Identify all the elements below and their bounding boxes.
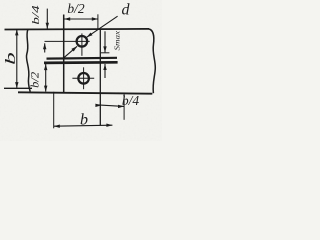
- arrowhead b left bottom: [15, 82, 18, 88]
- node hole 1 centerline vertical: [81, 33, 83, 55]
- dimension b/4 top lower tail: [44, 43, 46, 52]
- dimension b/2 top line: [64, 18, 98, 20]
- arrowhead leader d at circle: [87, 33, 93, 38]
- dimension b bottom line: [54, 125, 113, 126]
- dimension Smax lower segment: [104, 64, 106, 78]
- hole 2 circle: [78, 73, 89, 84]
- arrowhead b/2 left down: [44, 86, 47, 92]
- node hole 2 centerline horizontal: [72, 77, 94, 79]
- arrowhead b/2 top left: [64, 17, 70, 20]
- arrowhead b bottom left: [54, 125, 60, 128]
- extension line b/4 bottom right V12: [123, 94, 125, 120]
- wire bottom edge left plate B1: [4, 87, 32, 89]
- wire lower seam line H6: [44, 61, 118, 64]
- leader line d lower: [64, 46, 77, 57]
- arrowhead Smax up: [103, 64, 106, 70]
- extension line b bottom left V11: [53, 92, 55, 129]
- extension line right of b/2 top: [97, 14, 99, 28]
- arrowhead b left top: [15, 29, 18, 35]
- dimension Smax upper segment: [104, 31, 106, 52]
- dimension b/4 bottom line: [96, 105, 124, 107]
- node hole 2 centerline vertical: [83, 67, 85, 89]
- wire top edge of plates H1: [5, 28, 150, 31]
- arrowhead b bottom right: [106, 124, 112, 127]
- wire left vertical edge of overlap V5: [63, 15, 65, 94]
- wire left break wavy line: [26, 30, 30, 92]
- wire right vertical edge of overlap V7: [99, 29, 101, 125]
- dimension b left vertical line: [16, 30, 18, 88]
- arrowhead b/4 top down: [46, 23, 49, 29]
- arrowhead b/2 top right: [92, 17, 98, 20]
- arrowhead b/4 bottom outer: [118, 105, 124, 108]
- arrowhead b/4 bottom inner: [95, 104, 101, 107]
- arrowhead Smax down: [103, 46, 106, 52]
- node hole 1 centerline horizontal: [45, 40, 90, 42]
- wire right break wavy line: [149, 29, 156, 93]
- wire upper seam line H5: [47, 57, 118, 60]
- dimension b/2 left vertical line: [45, 64, 47, 92]
- dimension Smax tick line H9: [101, 52, 110, 54]
- dimension b/4 top vertical line: [46, 9, 48, 29]
- leader line d upper: [87, 16, 118, 37]
- arrowhead b/4 top up at centerline: [43, 43, 46, 49]
- wire bottom edge right plate B2: [18, 92, 152, 93]
- hole 1 circle: [77, 36, 88, 47]
- arrowhead leader d lower at circle: [71, 46, 77, 51]
- paper background: [0, 0, 162, 141]
- arrowhead b/2 left up: [44, 64, 47, 70]
